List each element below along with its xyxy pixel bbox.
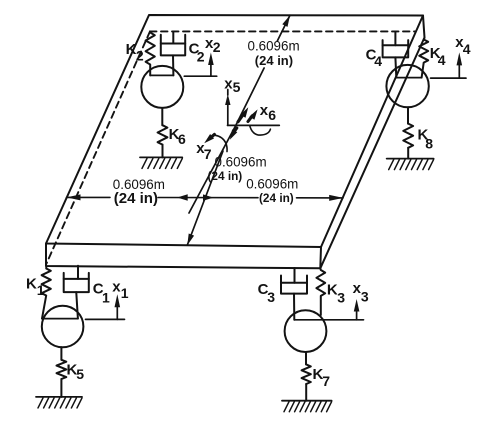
centerline inner arrowhead (front half) — [230, 128, 237, 140]
width dim right arrowhead — [329, 195, 343, 201]
label x5 — [224, 75, 240, 95]
attachment bar m4 — [396, 77, 421, 79]
svg-text:8: 8 — [425, 135, 433, 151]
arrow x4 — [457, 52, 463, 78]
spring K2 — [146, 33, 155, 76]
label x3 — [353, 280, 369, 305]
arrow x1 — [115, 294, 121, 319]
svg-text:0.6096m: 0.6096m — [246, 177, 298, 192]
dimension label (24 in) (right width) — [259, 191, 294, 205]
centerline inner arrowhead (back half) — [238, 107, 248, 122]
spring K4 — [419, 38, 428, 78]
dimension label (24 in) (front depth) — [208, 169, 243, 183]
arrow x2 — [208, 53, 214, 77]
svg-text:7: 7 — [322, 373, 330, 389]
plate front face — [46, 244, 321, 269]
svg-text:(24 in): (24 in) — [208, 169, 243, 183]
mass m2 — [141, 66, 183, 108]
attachment bar m1 — [42, 318, 78, 320]
reference line x3 — [294, 319, 363, 321]
rotation arrow x7 — [204, 134, 227, 152]
damper C1 — [64, 266, 89, 319]
ground under K6 — [140, 157, 182, 168]
svg-text:1: 1 — [121, 285, 129, 301]
damper C4 — [383, 32, 409, 78]
plate hidden bottom-back edge (dashed) — [150, 30, 415, 32]
label K1 — [26, 275, 45, 298]
centerline back arrowhead — [282, 15, 290, 27]
reference line x1 — [86, 318, 125, 320]
spring K8 — [403, 107, 413, 158]
svg-text:K: K — [26, 275, 37, 292]
plate top face — [46, 15, 423, 247]
label C3 — [258, 281, 276, 305]
centerline segment back — [189, 15, 290, 213]
mass m3 — [285, 310, 327, 352]
label K8 — [418, 126, 434, 151]
spring K3 — [316, 268, 325, 315]
width dim left arrowhead — [67, 194, 81, 200]
label K2 — [126, 41, 144, 64]
attachment bar m2 — [150, 74, 173, 76]
damper C3 — [281, 268, 307, 320]
svg-text:6: 6 — [268, 107, 276, 123]
ground under K8 — [387, 159, 434, 170]
svg-text:2: 2 — [136, 47, 144, 63]
ground under K7 — [282, 401, 332, 412]
dimension label 0.6096m (back depth) — [248, 39, 300, 54]
svg-text:3: 3 — [337, 289, 345, 305]
width dim inner-right arrowhead — [203, 194, 214, 200]
label x4 — [455, 34, 471, 57]
damper C2 — [161, 32, 185, 76]
label C1 — [93, 280, 110, 305]
label K6 — [169, 126, 186, 147]
svg-text:(24 in): (24 in) — [255, 53, 293, 68]
dimension label 0.6096m (left width) — [113, 177, 165, 192]
label x7 — [196, 140, 212, 162]
label K7 — [313, 366, 331, 389]
axis x5 arrow — [225, 90, 230, 126]
svg-text:1: 1 — [102, 290, 110, 306]
width dim inner-left arrowhead — [177, 194, 188, 200]
spring K1 — [42, 266, 51, 319]
plate right face — [320, 16, 424, 269]
rotation arrow x6 — [248, 109, 270, 135]
svg-text:2: 2 — [213, 39, 221, 55]
label C2 — [189, 41, 205, 65]
svg-text:3: 3 — [361, 289, 369, 305]
svg-text:5: 5 — [76, 366, 84, 382]
centerline segment front — [187, 151, 223, 245]
svg-text:4: 4 — [374, 53, 382, 69]
spring K6 — [158, 108, 168, 157]
label x2 — [205, 35, 221, 55]
svg-text:3: 3 — [267, 289, 275, 305]
reference line x2 — [184, 75, 216, 77]
reference line x4 — [431, 77, 466, 79]
svg-text:0.6096m: 0.6096m — [248, 39, 300, 54]
svg-text:5: 5 — [233, 79, 241, 95]
arrow x3 — [354, 299, 360, 320]
label x1 — [112, 279, 129, 302]
centerline front arrowhead — [187, 234, 194, 246]
svg-text:(24 in): (24 in) — [259, 191, 294, 205]
mass m1 — [42, 306, 84, 348]
svg-text:4: 4 — [463, 41, 471, 57]
dimension label (24 in) (back depth) — [255, 53, 293, 68]
dimension label 0.6096m (right width) — [246, 177, 298, 192]
mass m4 — [386, 65, 428, 107]
svg-text:7: 7 — [204, 146, 212, 162]
svg-text:2: 2 — [197, 49, 205, 65]
svg-text:6: 6 — [178, 131, 186, 147]
svg-text:1: 1 — [37, 282, 45, 298]
width dimension line — [67, 196, 344, 199]
lateral axis line — [228, 124, 280, 126]
dimension label 0.6096m (front depth) — [215, 155, 267, 170]
label K3 — [327, 281, 345, 305]
dimension label (24 in) (left width) — [114, 190, 158, 207]
spring K5 — [57, 347, 67, 397]
svg-text:0.6096m: 0.6096m — [215, 155, 267, 170]
label K4 — [430, 45, 446, 68]
svg-text:(24 in): (24 in) — [114, 190, 158, 207]
plate hidden bottom-left edge (dashed) — [47, 31, 151, 263]
svg-text:4: 4 — [438, 52, 446, 68]
label C4 — [366, 47, 383, 69]
ground under K5 — [36, 397, 82, 408]
spring K7 — [302, 352, 311, 401]
label x6 — [260, 102, 276, 123]
label K5 — [67, 362, 85, 383]
